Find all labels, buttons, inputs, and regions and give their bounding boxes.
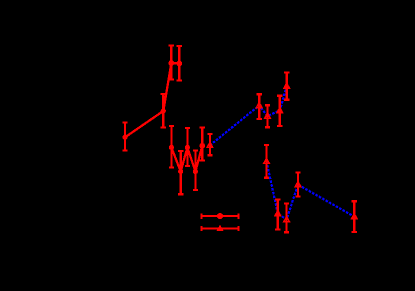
error bar circle point 8 [193,151,198,191]
blue dashed line A [210,86,287,145]
error bar circle point 5 [169,126,174,168]
error bar triangle point 3 [265,105,270,127]
circle markers series 1 [122,60,205,174]
legend entry 2 sample line [202,226,239,231]
error bar circle point 2 [161,94,166,128]
triangle markers series 2 [207,83,357,221]
error bar circle point 3 [169,46,174,80]
error bar circle point 6 [178,151,183,194]
red series 1 line segment B (zigzag) [171,146,202,172]
error bar triangle point 9 [295,173,300,197]
legend entry 1 sample line [202,213,239,218]
legend entry 1 circle marker [217,213,223,219]
legend entry 2 triangle marker [216,225,223,232]
red series 1 line segment A [125,63,179,137]
error bar triangle point 10 [352,201,357,232]
error bar circle point 7 [185,128,190,166]
error bar triangle point 2 [257,94,262,119]
error bar triangle point 1 [207,134,212,155]
blue dashed line B [267,161,355,219]
error bar triangle point 4 [277,96,282,126]
error bar triangle point 8 [284,204,289,233]
error bar circle point 1 [122,123,127,151]
error bar circle point 4 [177,46,182,81]
error bar triangle point 5 [284,72,289,99]
error bar circle point 9 [200,128,205,161]
error bar triangle point 7 [275,200,280,230]
error bar triangle point 6 [264,145,269,178]
